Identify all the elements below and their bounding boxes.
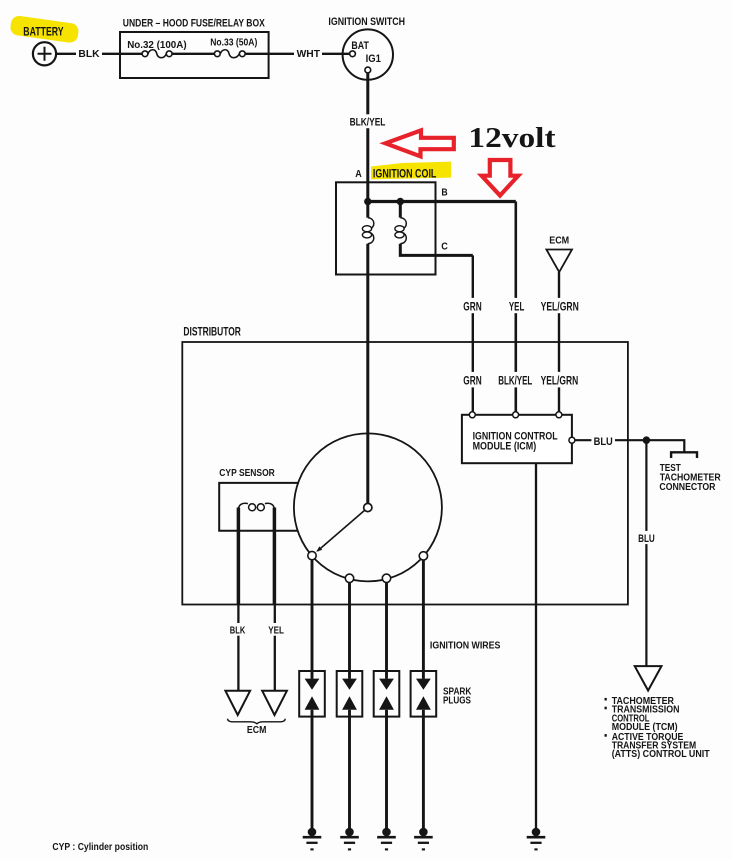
svg-text:BLU: BLU — [594, 436, 613, 448]
ICM right terminal — [569, 437, 575, 443]
svg-text:MODULE (ICM): MODULE (ICM) — [473, 440, 537, 452]
ignition switch — [343, 29, 393, 79]
wire fuse box to ignition switch WHT — [245, 53, 349, 55]
svg-text:GRN: GRN — [463, 375, 481, 387]
svg-text:IGNITION SWITCH: IGNITION SWITCH — [328, 16, 405, 28]
svg-text:IGNITION WIRES: IGNITION WIRES — [430, 640, 501, 652]
ignition wire 2 — [348, 583, 351, 679]
wire CYP right lead — [273, 508, 277, 605]
svg-text:CONNECTOR: CONNECTOR — [659, 482, 716, 493]
terminal BAT — [350, 51, 356, 57]
svg-text:12volt: 12volt — [468, 122, 556, 154]
red arrow down — [482, 160, 519, 196]
svg-text:WHT: WHT — [297, 48, 321, 60]
junction BLU — [643, 436, 651, 444]
wire BLK/YEL IG1 down to coil — [366, 73, 369, 218]
distributor box — [182, 342, 628, 605]
svg-text:PLUGS: PLUGS — [443, 695, 471, 707]
under-hood fuse/relay box — [120, 32, 269, 78]
wire into fuse No.32 — [120, 53, 142, 55]
bullet list tachometer/TCM/ATTS — [605, 698, 607, 701]
svg-text:BATTERY: BATTERY — [23, 26, 64, 38]
svg-text:(ATTS) CONTROL UNIT: (ATTS) CONTROL UNIT — [612, 749, 710, 760]
wire spark plug 3 to ground — [385, 710, 388, 830]
ignition wire 1 — [311, 560, 314, 679]
spark plug 1 — [299, 671, 325, 717]
svg-text:UNDER – HOOD FUSE/RELAY BOX: UNDER – HOOD FUSE/RELAY BOX — [123, 18, 266, 30]
ground ICM — [532, 828, 541, 837]
svg-text:BLK: BLK — [78, 48, 100, 60]
wire YEL to ECM — [274, 605, 276, 691]
svg-text:No.33 (50A): No.33 (50A) — [210, 37, 257, 49]
arrow to tachometer/TCM/ATTS — [635, 666, 662, 690]
label BLK bottom — [228, 623, 248, 636]
svg-text:No.32 (100A): No.32 (100A) — [127, 39, 186, 51]
label BLK/YEL top — [348, 114, 388, 128]
wire YEL B down to ICM — [514, 202, 517, 416]
ICM terminal 3 — [556, 412, 562, 418]
ICM terminal 1 — [469, 412, 475, 418]
svg-text:BLU: BLU — [638, 533, 655, 545]
wire BLK to ECM — [237, 605, 239, 691]
svg-text:ECM: ECM — [247, 724, 267, 736]
ground spark plug 2 — [345, 828, 354, 837]
svg-text:BLK/YEL: BLK/YEL — [350, 117, 386, 129]
rotor terminal 3 — [382, 574, 390, 582]
wire between fuses — [172, 53, 214, 55]
ground spark plug 1 — [308, 828, 317, 837]
svg-text:BLK: BLK — [230, 625, 246, 637]
svg-text:C: C — [441, 242, 448, 253]
ignition control module (ICM) box — [462, 415, 572, 463]
svg-text:YEL: YEL — [509, 302, 524, 314]
svg-text:YEL: YEL — [268, 625, 284, 637]
wire BLU down — [645, 442, 647, 666]
rotor hub — [364, 503, 372, 511]
ignition wire 4 — [422, 560, 425, 679]
svg-text:IGNITION COIL: IGNITION COIL — [373, 169, 437, 181]
secondary winding L2 — [400, 218, 406, 230]
wire CYP left lead — [237, 508, 241, 605]
CYP sensor coil — [238, 503, 248, 509]
junction dot A-B — [364, 198, 371, 205]
ignition wire 3 — [385, 583, 388, 679]
svg-text:CYP SENSOR: CYP SENSOR — [219, 468, 275, 479]
wire C from coil2 — [400, 244, 473, 256]
highlight BATTERY — [9, 15, 79, 44]
rotor terminal 1 — [308, 551, 316, 559]
svg-text:A: A — [355, 169, 362, 180]
ICM terminal 2 — [513, 412, 519, 418]
terminal IG1 — [365, 67, 371, 73]
svg-text:IG1: IG1 — [366, 53, 381, 65]
label YEL bottom — [266, 623, 286, 636]
ICM ground wire down — [535, 463, 537, 829]
label GRN 1 — [461, 298, 485, 313]
wire coil to distributor hub — [366, 244, 369, 503]
rotor terminal 4 — [419, 552, 427, 560]
wire BLU from ICM — [575, 440, 684, 452]
red arrow left — [385, 130, 453, 156]
primary winding L1 — [368, 218, 374, 230]
battery — [33, 42, 56, 65]
wire BLK battery to fuse box — [56, 53, 120, 55]
fuse No.32 (100A) — [142, 51, 148, 57]
rotor terminal 2 — [345, 574, 353, 582]
ECM connector triangle YEL — [262, 691, 287, 715]
rotor arm — [318, 511, 365, 552]
junction dot coil2 — [397, 198, 404, 205]
spark plug 4 — [411, 671, 437, 717]
svg-text:YEL/GRN: YEL/GRN — [541, 375, 579, 387]
highlight IGNITION COIL — [371, 162, 451, 180]
svg-text:BAT: BAT — [351, 40, 369, 52]
wire spark plug 2 to ground — [348, 710, 351, 830]
ground spark plug 3 — [382, 828, 391, 837]
distributor rotor circle — [294, 433, 442, 581]
label YEL/GRN 2 — [538, 372, 580, 388]
label BLU right — [591, 434, 615, 447]
label YEL 1 — [507, 298, 527, 313]
label WHT — [294, 48, 322, 60]
wire GRN C down to ICM — [472, 255, 474, 415]
ECM connector triangle BLK — [225, 691, 250, 715]
svg-text:YEL/GRN: YEL/GRN — [541, 302, 579, 314]
spark plug 3 — [374, 671, 400, 717]
svg-text:CYP : Cylinder position: CYP : Cylinder position — [52, 841, 148, 853]
wire spark plug 1 to ground — [311, 710, 314, 830]
label BLK top — [76, 48, 102, 60]
brace ECM — [228, 719, 286, 724]
label BLU down — [636, 531, 657, 544]
svg-text:DISTRIBUTOR: DISTRIBUTOR — [183, 327, 241, 339]
spark plug 2 — [337, 671, 363, 717]
wire spark plug 4 to ground — [422, 710, 425, 830]
ECM connector triangle top — [546, 250, 572, 273]
coil2 top lead — [399, 202, 402, 218]
svg-text:B: B — [441, 188, 447, 199]
ground spark plug 4 — [419, 828, 428, 837]
svg-text:GRN: GRN — [463, 302, 481, 314]
CYP sensor box — [219, 483, 298, 531]
wire B thick horizontal — [368, 200, 516, 203]
label BLK/YEL 2 — [496, 372, 534, 388]
test tachometer connector — [671, 452, 697, 458]
wire YEL/GRN ECM down to ICM — [558, 272, 560, 415]
fuse No.33 (50A) — [214, 51, 220, 57]
svg-text:BLK/YEL: BLK/YEL — [498, 375, 532, 387]
label YEL/GRN 1 — [538, 298, 581, 313]
svg-text:ECM: ECM — [549, 235, 569, 246]
ignition coil box — [336, 182, 436, 274]
label GRN 2 — [461, 372, 485, 388]
